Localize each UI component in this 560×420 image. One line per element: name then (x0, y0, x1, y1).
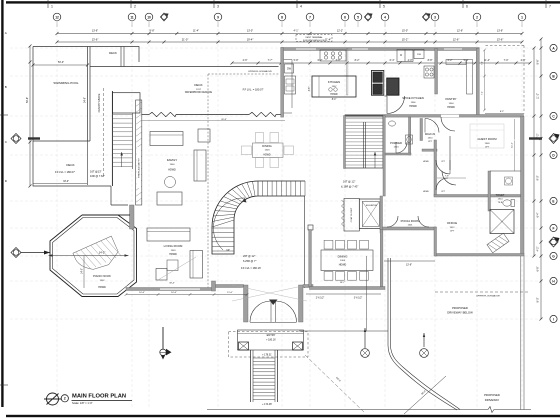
svg-text:1310: 1310 (428, 138, 434, 140)
dimension line top row1 (57, 33, 522, 35)
grid bubble A right (550, 44, 557, 51)
svg-text:HDWD: HDWD (330, 94, 337, 96)
svg-text:4: 4 (300, 5, 302, 9)
svg-text:5: 5 (357, 15, 359, 19)
svg-text:GUEST ROOM: GUEST ROOM (477, 137, 497, 141)
powder room (409, 117, 411, 155)
svg-text:HDWD: HDWD (168, 169, 176, 172)
dimension line right inner double (523, 256, 525, 410)
svg-text:Scale: 1/8" = 1'-0": Scale: 1/8" = 1'-0" (72, 401, 93, 405)
svg-text:33'-4": 33'-4" (169, 283, 175, 285)
spice kitchen door (386, 96, 388, 114)
ruler marks top (47, 0, 49, 8)
dimension line top row3 (232, 62, 530, 64)
east wall guest (521, 116, 525, 255)
svg-text:4: 4 (384, 15, 386, 19)
svg-text:13'-6": 13'-6" (92, 30, 98, 33)
grid bubble D right (550, 151, 557, 158)
svg-text:DRIVEWAY BELOW: DRIVEWAY BELOW (447, 311, 473, 315)
wall oven boxes (397, 50, 413, 62)
skylight x-box office (490, 210, 514, 234)
zigzag break line (149, 112, 176, 116)
guest carpet area (470, 124, 504, 148)
svg-text:DINING: DINING (262, 144, 271, 148)
toilet fixture (503, 200, 511, 206)
pooja bottom wall (380, 227, 436, 230)
svg-text:7'-4": 7'-4" (482, 61, 484, 65)
living chair left (156, 269, 167, 281)
grid bubble 2 (473, 13, 481, 21)
svg-text:HDWD: HDWD (98, 286, 106, 289)
marker circle left of entry (162, 327, 164, 349)
svg-text:14'-2": 14'-2" (99, 251, 106, 255)
grid bubble I right (550, 315, 557, 322)
svg-text:6'-8": 6'-8" (537, 266, 540, 271)
hall wall east of stair (383, 116, 385, 197)
cooktop (320, 50, 346, 61)
svg-text:HDWD: HDWD (423, 161, 430, 163)
svg-text:11'-0": 11'-0" (227, 292, 233, 294)
fan stair up arrow (213, 198, 245, 250)
piano sketch (73, 236, 122, 276)
svg-text:HDWD: HDWD (409, 105, 417, 108)
svg-text:1312: 1312 (450, 227, 456, 229)
door arcs pooja room (387, 216, 398, 227)
wall north of octagon (118, 214, 130, 216)
svg-text:PROPOSED: PROPOSED (452, 306, 468, 310)
breakfast dining table (253, 143, 284, 158)
walkway edge vertical (366, 256, 368, 331)
svg-text:6'-4": 6'-4" (537, 212, 540, 217)
section marker diamond top (364, 13, 371, 21)
dimension line right column 2 (533, 48, 535, 256)
svg-text:11'-4": 11'-4" (484, 59, 490, 62)
svg-text:26T @ 12": 26T @ 12" (243, 254, 255, 258)
svg-text:6: 6 (466, 5, 468, 9)
hall wall right of fan stair (304, 196, 306, 288)
svg-text:& 16R @ 7.43": & 16R @ 7.43" (341, 185, 358, 189)
svg-text:12'-2": 12'-2" (337, 30, 343, 33)
svg-text:3'-8": 3'-8" (309, 87, 311, 92)
svg-text:11'-2": 11'-2" (537, 93, 540, 99)
svg-text:9'-0": 9'-0" (537, 175, 540, 180)
svg-text:53'-0": 53'-0" (58, 61, 64, 64)
guest east window (521, 140, 524, 160)
svg-text:1302: 1302 (100, 280, 106, 282)
svg-text:16R @ 7.62": 16R @ 7.62" (90, 174, 105, 178)
svg-text:13'-0": 13'-0" (247, 30, 253, 33)
svg-text:7'-8": 7'-8" (445, 176, 449, 178)
canopy above dashed (103, 88, 105, 178)
svg-text:4'-1": 4'-1" (294, 30, 299, 33)
svg-text:PROPOSED: PROPOSED (484, 393, 500, 397)
svg-text:F.F LVL. = 180.07': F.F LVL. = 180.07' (243, 88, 264, 92)
svg-text:8'-2": 8'-2" (355, 59, 360, 62)
grid lines faint (56, 24, 58, 408)
svg-text:1313: 1313 (394, 147, 400, 149)
svg-text:1309: 1309 (485, 143, 491, 145)
section marker diamond right (549, 237, 558, 247)
wall x435 pooja-office jog (434, 227, 437, 256)
svg-text:F.F LVL = 180.07': F.F LVL = 180.07' (55, 170, 76, 174)
svg-text:12'-6": 12'-6" (453, 38, 460, 42)
svg-text:13'-6": 13'-6" (92, 38, 99, 42)
mid wall y115 segment east (345, 115, 524, 118)
svg-text:1307: 1307 (332, 86, 338, 88)
entry floor diagonals (232, 285, 307, 301)
svg-text:DECK: DECK (109, 51, 117, 55)
grid bubble 4 (381, 13, 389, 21)
porch slab (238, 330, 304, 350)
entry walls (244, 285, 249, 322)
toilet room (488, 171, 491, 211)
svg-text:FAMILY: FAMILY (167, 158, 177, 162)
kitchen island (312, 76, 356, 97)
guest suite top dim (485, 113, 524, 115)
coat closet (344, 199, 359, 232)
svg-text:16T @ 12": 16T @ 12" (343, 180, 355, 184)
nook dimension (49, 255, 129, 257)
upper floor above dashed right (435, 291, 530, 293)
west wall kitchen (281, 48, 284, 118)
svg-text:53'-6": 53'-6" (26, 97, 29, 103)
svg-text:E: E (552, 199, 554, 203)
living coffee table (167, 260, 178, 271)
spice kitchen stove (424, 66, 434, 78)
grid bubble 10 (145, 13, 153, 21)
svg-text:12'-6": 12'-6" (457, 30, 463, 33)
svg-text:11'-4": 11'-4" (325, 38, 331, 42)
terrace edge line (299, 330, 388, 332)
svg-text:UP: UP (226, 249, 230, 252)
svg-text:TOILET: TOILET (496, 194, 505, 197)
svg-text:HDWD: HDWD (169, 253, 177, 256)
svg-text:15'-0": 15'-0" (402, 30, 408, 33)
grid bubble 8 (278, 13, 286, 21)
svg-text:1306: 1306 (411, 102, 417, 104)
sink counter west (285, 76, 296, 94)
spice/pantry divider (435, 49, 438, 95)
dimension line right column (540, 39, 542, 319)
grid bubble E right (550, 197, 557, 204)
upper floor dashed NE (486, 45, 525, 47)
svg-text:14'-0": 14'-0" (82, 268, 84, 274)
border frame left bar (1, 0, 3, 407)
svg-text:34'-8": 34'-8" (85, 97, 87, 103)
ground line (207, 409, 488, 411)
svg-text:7: 7 (549, 5, 551, 9)
svg-text:13'-6": 13'-6" (497, 38, 504, 42)
svg-text:6'-4": 6'-4" (390, 59, 395, 62)
office bottom wall (435, 254, 524, 257)
dimension line top row2 (57, 41, 522, 43)
north arrow symbol (47, 393, 59, 405)
svg-text:PANTRY: PANTRY (445, 97, 456, 101)
family round table (165, 177, 176, 188)
svg-text:5'-8": 5'-8" (294, 59, 299, 62)
grid bubble 5 (354, 13, 362, 21)
svg-text:2'-6 1/2": 2'-6 1/2" (316, 298, 325, 300)
deck line below pooja (384, 260, 435, 262)
svg-text:COAT CLOSET: COAT CLOSET (350, 207, 353, 222)
svg-text:CANOPY ABOVE: CANOPY ABOVE (98, 93, 101, 112)
svg-text:FIREPLACE ABV TV: FIREPLACE ABV TV (137, 158, 140, 178)
pantry door gap (441, 115, 459, 117)
nook pointer arrow left (21, 252, 50, 254)
svg-text:+ 180.16': + 180.16' (266, 339, 276, 342)
south wall west segment (126, 288, 214, 291)
svg-text:2: 2 (64, 397, 66, 401)
svg-text:2'-6": 2'-6" (521, 59, 526, 62)
svg-text:15'-7": 15'-7" (340, 282, 346, 284)
svg-text:11'-4": 11'-4" (193, 30, 199, 33)
living rug diagonal (158, 257, 196, 280)
border frame bottom bar (6, 415, 560, 417)
octagon piano nook walls (50, 215, 137, 297)
dim line below south wall (126, 294, 247, 296)
lamp symbol 2 (423, 333, 425, 347)
driveway curve (391, 258, 461, 410)
svg-text:13'-6": 13'-6" (497, 30, 503, 33)
section marker diamond top (422, 13, 429, 21)
svg-text:15'-2": 15'-2" (402, 38, 409, 42)
family sofa 1 (150, 132, 183, 146)
svg-text:7'-0": 7'-0" (504, 59, 509, 62)
svg-text:KITCHEN: KITCHEN (328, 80, 340, 84)
hall door arc west (442, 171, 456, 185)
kitchen counter end cap (284, 112, 292, 114)
title bubble 2 (61, 395, 68, 402)
family chair (198, 129, 210, 142)
deck 1317 center (90, 66, 279, 68)
upper floor above dashed (208, 73, 279, 75)
dims below dining (306, 293, 381, 295)
svg-text:1303: 1303 (265, 149, 271, 151)
lamp symbol 1 (364, 328, 366, 348)
grid bubble 11 (128, 13, 136, 21)
grid bubble 7 (306, 13, 314, 21)
svg-text:UPPER FLOOR ABOVE: UPPER FLOOR ABOVE (248, 70, 272, 73)
window east (514, 139, 517, 141)
svg-text:CPT: CPT (450, 230, 455, 232)
swimming pool (87, 47, 89, 142)
washbasin guest bath (506, 178, 512, 184)
west wall upper (canopy col) (110, 186, 112, 205)
guest/hall wall vertical (434, 140, 437, 196)
svg-text:DECK: DECK (66, 163, 74, 167)
porch columns (239, 342, 249, 350)
canopy dashed (229, 332, 309, 358)
svg-text:1304: 1304 (449, 103, 455, 105)
svg-text:2: 2 (476, 15, 478, 19)
svg-text:F: F (553, 226, 555, 230)
grid bubble 12 (53, 13, 61, 21)
svg-text:UPPER FLOOR ABOVE: UPPER FLOOR ABOVE (476, 295, 500, 298)
svg-text:OFFICE: OFFICE (447, 221, 457, 225)
svg-text:PIANO NOOK: PIANO NOOK (93, 274, 111, 278)
svg-text:11: 11 (130, 15, 134, 19)
svg-text:6.25R @ 7°: 6.25R @ 7° (243, 259, 256, 263)
svg-text:1304: 1304 (340, 260, 346, 262)
diagonal dashed site line (305, 355, 365, 413)
south wall east segment (303, 285, 313, 288)
svg-text:A: A (5, 31, 7, 35)
svg-text:9'-8": 9'-8" (150, 30, 155, 33)
svg-text:VENT TERMINAL: VENT TERMINAL (305, 36, 323, 39)
svg-text:6: 6 (344, 15, 346, 19)
svg-text:DECK: DECK (194, 83, 202, 87)
pool edge extension (87, 141, 89, 185)
svg-text:7'-4": 7'-4" (482, 91, 484, 95)
exterior stair west (112, 93, 140, 113)
grid bubble B right (550, 72, 557, 79)
hall door arcs (436, 160, 450, 174)
svg-text:1303: 1303 (171, 250, 177, 252)
grid bubble F right (550, 224, 557, 231)
dining table (321, 250, 373, 271)
fireplace wall (136, 100, 142, 205)
section marker diamond top (160, 13, 167, 21)
svg-text:CPT: CPT (428, 141, 433, 143)
svg-text:WALK-IN: WALK-IN (425, 133, 436, 136)
svg-text:TILE: TILE (498, 202, 503, 204)
svg-text:DRIVEWAY: DRIVEWAY (485, 398, 500, 402)
wall octagon to living (130, 205, 135, 229)
section marker diamond left 1 (11, 134, 21, 144)
living chaise right (190, 251, 203, 279)
svg-text:8'-8": 8'-8" (428, 59, 433, 62)
svg-text:11'-2": 11'-2" (512, 142, 514, 148)
svg-text:F.F LVL = 180.16': F.F LVL = 180.16' (241, 266, 262, 270)
deck outline upper-left (33, 47, 139, 63)
angled piano office (487, 233, 509, 253)
elevator (359, 199, 382, 229)
svg-text:33'-0": 33'-0" (63, 181, 69, 183)
pooja west wall (380, 196, 383, 233)
svg-text:8'-0": 8'-0" (537, 297, 540, 302)
svg-text:10'-6": 10'-6" (171, 292, 177, 294)
dining room walls (310, 287, 386, 290)
svg-text:HDWD: HDWD (263, 154, 270, 156)
svg-text:1314: 1314 (498, 199, 504, 201)
svg-text:16T @13": 16T @13" (90, 170, 102, 174)
stair west wall (344, 116, 346, 169)
walk-in closet (420, 119, 423, 141)
svg-text:7'-7": 7'-7" (268, 59, 273, 62)
interior stair NE (345, 116, 383, 169)
deck column pair (120, 47, 122, 67)
svg-text:2'-6": 2'-6" (243, 59, 248, 62)
dimension line guest inner (514, 119, 516, 171)
svg-text:2: 2 (134, 5, 136, 9)
grid bubble G right (550, 252, 557, 259)
north wall kitchen-pantry (281, 48, 480, 51)
svg-text:3'-6 1/2": 3'-6 1/2" (354, 298, 363, 300)
family sofa 2 (194, 150, 206, 181)
svg-text:1: 1 (521, 15, 523, 19)
svg-text:8: 8 (281, 15, 283, 19)
svg-text:4'-2": 4'-2" (537, 246, 540, 251)
fridge block 1 (371, 71, 383, 96)
spice kitchen west half-wall (347, 49, 348, 96)
svg-text:SPICE KITCHEN: SPICE KITCHEN (402, 96, 423, 100)
family chaise (157, 192, 182, 205)
svg-text:3: 3 (217, 5, 219, 9)
dimension line left column (29, 46, 31, 186)
section marker diamond left 2 (11, 248, 21, 258)
fan stair curved (212, 181, 305, 254)
svg-text:8'-2": 8'-2" (500, 111, 505, 113)
svg-text:I: I (553, 317, 554, 321)
svg-text:3'-6": 3'-6" (336, 59, 341, 62)
svg-text:8'-6": 8'-6" (537, 59, 540, 64)
svg-text:12: 12 (55, 15, 59, 19)
living sofa (147, 228, 190, 241)
pantry shelves (446, 60, 466, 65)
wall y196 (434, 195, 521, 198)
grid bubble 1 (518, 13, 526, 21)
svg-text:SWIMMING POOL: SWIMMING POOL (53, 81, 78, 85)
svg-text:+ 174.48': + 174.48' (262, 403, 272, 406)
svg-text:+ 178.31': + 178.31' (262, 354, 272, 357)
svg-text:HDWD: HDWD (423, 191, 430, 193)
DW box (285, 64, 294, 73)
svg-text:HDWD: HDWD (447, 106, 455, 109)
svg-text:3: 3 (434, 15, 436, 19)
svg-text:10'-6": 10'-6" (139, 292, 145, 294)
pantry east wall (476, 49, 479, 117)
svg-text:1300: 1300 (170, 164, 176, 166)
svg-text:1301: 1301 (408, 225, 414, 227)
front steps (250, 350, 252, 402)
grid bubble 6 (341, 13, 349, 21)
south wall segment at entry left (214, 285, 244, 288)
grid bubble H right (550, 277, 557, 284)
svg-text:MAIN FLOOR PLAN: MAIN FLOOR PLAN (72, 393, 126, 399)
diamond leader dash right (529, 137, 542, 139)
svg-text:7: 7 (309, 15, 311, 19)
driveway radius callout (404, 376, 446, 414)
svg-text:B: B (5, 85, 7, 89)
kitchen counter west (291, 60, 293, 109)
border frame top bar (6, 1, 560, 3)
svg-text:5: 5 (383, 5, 385, 9)
svg-text:1: 1 (51, 5, 53, 9)
section marker diamond right (549, 134, 558, 144)
svg-text:13'-6": 13'-6" (406, 264, 412, 267)
svg-text:POOJA ROOM: POOJA ROOM (401, 219, 420, 223)
svg-text:9: 9 (217, 15, 219, 19)
vent terminal note (296, 35, 332, 42)
svg-text:1317: 1317 (196, 89, 202, 91)
svg-text:10: 10 (147, 15, 151, 19)
grid bubble 9 (214, 13, 222, 21)
svg-text:LIVING ROOM: LIVING ROOM (164, 244, 183, 248)
deck bottom dim (33, 183, 87, 185)
grid bubble C right (550, 112, 557, 119)
svg-text:DINING: DINING (338, 255, 348, 259)
grid bubble 3 (431, 13, 439, 21)
svg-text:HDWD: HDWD (339, 264, 347, 267)
fridge block 2 (387, 78, 399, 95)
svg-text:19'-4": 19'-4" (247, 38, 254, 42)
svg-text:21'-0": 21'-0" (182, 38, 189, 42)
entry double doors (250, 301, 271, 322)
svg-text:FOR KITCHEN HOOD: FOR KITCHEN HOOD (303, 40, 325, 42)
svg-text:CPT: CPT (485, 147, 490, 149)
svg-text:8'-4": 8'-4" (332, 99, 337, 101)
